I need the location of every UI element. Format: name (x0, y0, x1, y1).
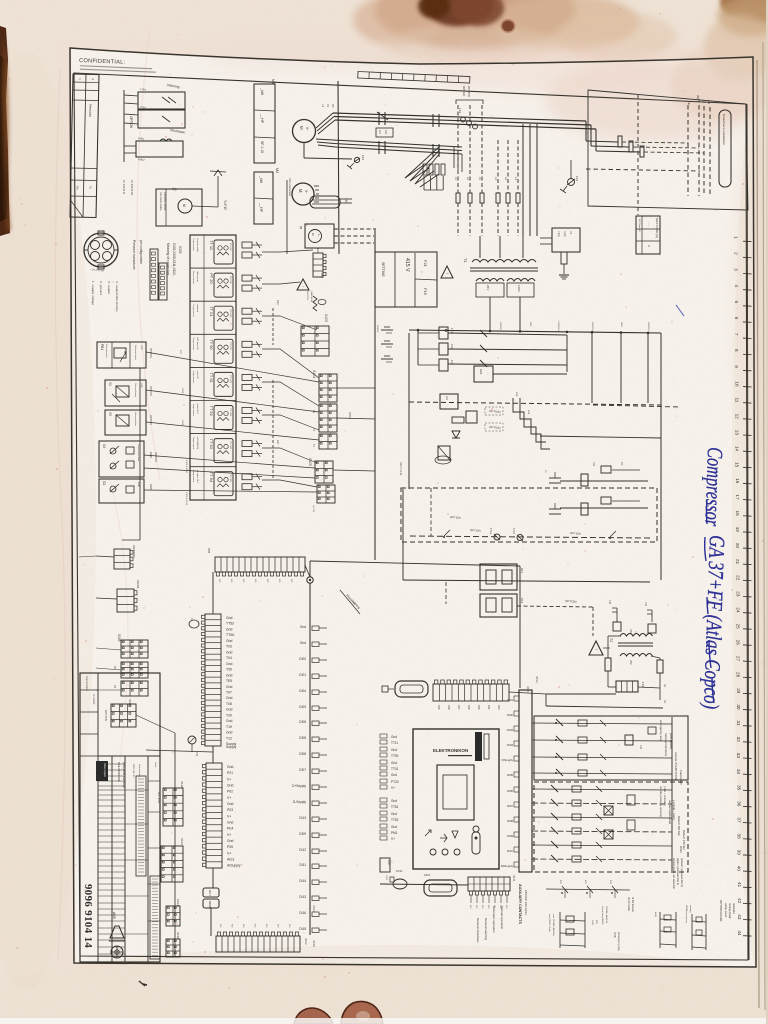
svg-text:(9+0.5): (9+0.5) (312, 505, 314, 512)
star-delta link diagonals (405, 165, 424, 178)
svg-text:Gnd: Gnd (226, 696, 233, 700)
svg-text:P01: P01 (227, 771, 233, 775)
svg-text:DI15: DI15 (299, 927, 306, 931)
svg-text:Dr. month: Dr. month (92, 694, 95, 705)
svg-text:S3/LP 41.13: S3/LP 41.13 (399, 462, 402, 476)
svg-text:40: 40 (737, 866, 742, 872)
svg-text:9X18: 9X18 (424, 873, 431, 877)
contact rows dashed box 2 (534, 782, 688, 872)
aux comb pin stubs (471, 895, 507, 903)
svg-text:1HE1: 1HE1 (489, 528, 492, 535)
svg-text:1~: 1~ (317, 234, 321, 237)
Elektronikon module box (413, 729, 499, 869)
contact rows box 1 (534, 716, 688, 780)
svg-text:DI01: DI01 (507, 698, 513, 702)
svg-text:K11: K11 (520, 568, 524, 573)
right bus of sensor module (374, 228, 376, 560)
svg-text:Dr: Dr (89, 186, 93, 189)
svg-text:OPTION: OPTION (450, 515, 461, 520)
svg-text:LAT dryer ID: LAT dryer ID (196, 337, 199, 350)
svg-text:S102: S102 (591, 920, 593, 926)
solenoid block Y5 (105, 410, 146, 435)
svg-text:SF-1.15: SF-1.15 (260, 141, 264, 153)
three-phase bus lower (333, 140, 462, 147)
bus junction dots (417, 329, 420, 332)
motor M1 circle (293, 120, 316, 143)
svg-text:Delta P DD filter: Delta P DD filter (677, 816, 681, 836)
PE earth terminal (568, 179, 575, 186)
svg-text:Gnd: Gnd (226, 616, 233, 620)
junction node (307, 577, 313, 583)
Atlas Copco logo (96, 761, 108, 781)
svg-text:K01: K01 (487, 705, 491, 710)
svg-text:Gnd: Gnd (226, 628, 233, 632)
svg-text:3: 3 (734, 268, 739, 271)
X30 comb (433, 684, 509, 701)
svg-text:4: 4 (734, 284, 739, 287)
svg-text:NO: NO (290, 579, 292, 583)
svg-text:41: 41 (737, 882, 742, 888)
overload label (376, 128, 393, 137)
lower bundle to links (405, 146, 440, 178)
connector chain vertical wire (174, 733, 176, 957)
svg-text:3PM: 3PM (529, 322, 531, 327)
svg-text:Atlas Copco: Atlas Copco (103, 763, 107, 778)
option dashed feeders group1 (457, 105, 459, 193)
customer installation box (588, 90, 748, 210)
svg-text:6: 6 (734, 317, 739, 320)
stub wires to border (96, 648, 121, 650)
svg-text:X100A: X100A (136, 580, 140, 589)
MAX FUSE table (636, 216, 660, 254)
svg-text:18: 18 (735, 511, 740, 517)
svg-text:39JX36: 39JX36 (376, 325, 378, 333)
svg-text:V+: V+ (227, 777, 231, 781)
svg-text:turning (dual): turning (dual) (728, 903, 732, 918)
svg-text:Gnd: Gnd (226, 719, 233, 723)
svg-text:[5]: [5] (299, 226, 303, 229)
svg-text:T20: T20 (226, 713, 232, 717)
svg-text:OPTION: OPTION (565, 599, 577, 604)
relay K25 (466, 411, 477, 423)
sensor row TT 52 (190, 400, 236, 402)
svg-text:31: 31 (736, 721, 741, 727)
svg-text:Gnd: Gnd (226, 673, 233, 677)
svg-text:DI05: DI05 (299, 736, 306, 740)
supply dashed lines (687, 105, 689, 196)
svg-text:NO: NO (266, 579, 268, 583)
fan motor wires (192, 206, 218, 207)
svg-text:From & Name: From & Name (85, 676, 88, 692)
option contact row 1 (532, 789, 672, 790)
Elektronikon left pin strip upper (391, 735, 399, 790)
svg-text:SETTING: SETTING (381, 262, 385, 277)
dryer option bracket (456, 100, 483, 104)
capacitor sym upper (549, 477, 561, 479)
svg-text:Gnd: Gnd (391, 761, 397, 765)
svg-text:T2: T2 (609, 638, 613, 642)
Elektronikon logo (475, 732, 482, 761)
svg-text:L1(1): L1(1) (557, 231, 560, 237)
svg-text:1X3: 1X3 (575, 176, 579, 181)
transformer T1 primary winding (472, 260, 536, 263)
relay row F02 lower (560, 507, 648, 509)
svg-text:OUT: OUT (208, 890, 212, 896)
svg-text:PT-1000: PT-1000 (229, 475, 231, 483)
svg-text:13: 13 (735, 430, 740, 436)
contact rows right bus (671, 717, 673, 871)
revision table left strip (70, 74, 99, 218)
svg-text:30: 30 (736, 704, 741, 710)
relay K24 box (474, 366, 493, 382)
svg-text:X304: X304 (181, 388, 183, 394)
svg-text:DI13: DI13 (299, 895, 306, 899)
svg-text:DI03: DI03 (507, 728, 513, 732)
svg-text:Y5: Y5 (108, 412, 112, 416)
svg-text:Fault EWD: Fault EWD (679, 770, 683, 785)
svg-text:Solenoid valve: Solenoid valve (134, 383, 136, 398)
svg-text:ELEKTRONIKON: ELEKTRONIKON (433, 748, 468, 753)
sensor feed wires to X104 (262, 250, 313, 252)
digital contact row 3 (532, 757, 672, 758)
Elektronikon buttons (425, 830, 431, 836)
svg-text:33: 33 (736, 753, 741, 759)
ruler column numbers 1-44 (734, 236, 752, 936)
svg-text:PT-1000: PT-1000 (229, 409, 231, 417)
svg-text:V+: V+ (227, 833, 231, 837)
svg-text:PT-1000: PT-1000 (229, 309, 231, 317)
line terminals 1X3 circles (461, 117, 466, 122)
svg-text:Temp sensor: Temp sensor (192, 238, 195, 251)
svg-text:TT 51: TT 51 (209, 372, 214, 383)
svg-text:T04: T04 (226, 656, 232, 660)
EWD module A4 (440, 394, 458, 409)
analog terminal comb 3X35 (205, 614, 221, 746)
svg-text:( line + remote ): ( line + remote ) (663, 786, 667, 806)
svg-text:!: ! (445, 273, 449, 274)
svg-text:NO: NO (254, 924, 256, 928)
svg-text:K12: K12 (520, 598, 524, 604)
sensor row PT 20 (190, 267, 236, 269)
svg-text:Gnd: Gnd (227, 784, 234, 788)
svg-text:415 V: 415 V (404, 258, 410, 272)
sensor row TT 11 (203, 235, 205, 268)
svg-text:240VAC 10A AC11: 240VAC 10A AC11 (524, 890, 528, 915)
svg-text:F21: F21 (450, 328, 454, 333)
svg-text:OPTION: OPTION (570, 531, 581, 536)
svg-text:F01: F01 (592, 462, 595, 467)
svg-text:PT-1000: PT-1000 (229, 342, 231, 350)
pressure switch block S3 (99, 441, 144, 477)
svg-text:NO: NO (481, 905, 483, 909)
blue pen tick (676, 305, 684, 316)
svg-text:Ordernumber: Ordernumber (138, 764, 141, 777)
svg-text:air water OUT: air water OUT (196, 470, 199, 484)
svg-text:DI11: DI11 (300, 863, 307, 867)
warning triangle T1 (441, 266, 453, 278)
svg-text:MOL: MOL (515, 392, 517, 398)
T2 right leg resistor (651, 656, 660, 658)
wire to 3X34 (310, 561, 520, 566)
svg-text:DI02: DI02 (507, 713, 513, 717)
svg-text:To F15: To F15 (223, 200, 227, 210)
svg-text:PE4: PE4 (227, 827, 234, 831)
earth symbol analog (188, 736, 196, 744)
svg-text:KC Class gG: KC Class gG (638, 219, 640, 232)
fan M3 box (305, 224, 334, 248)
svg-text:NO: NO (242, 579, 244, 583)
stain left edge dark strip (0, 26, 10, 236)
svg-text:35: 35 (736, 785, 741, 791)
svg-text:(closed = pressure bat 2): (closed = pressure bat 2) (680, 858, 684, 887)
svg-text:OSD: OSD (140, 345, 142, 350)
svg-text:Gnd: Gnd (391, 773, 397, 777)
svg-text:9822 0937 40: 9822 0937 40 (132, 764, 134, 778)
svg-text:(open = pressure bat 1): (open = pressure bat 1) (676, 858, 680, 885)
wire check row (546, 889, 630, 890)
X112 comb (163, 788, 183, 826)
svg-text:PT20: PT20 (391, 780, 399, 784)
svg-text:38M: 38M (207, 548, 211, 553)
svg-text:Gnd: Gnd (391, 812, 397, 816)
svg-text:NO: NO (265, 924, 267, 928)
fan M3 dashed feeders (334, 228, 374, 230)
T1 secondary drops (489, 297, 491, 330)
svg-text:TE5: TE5 (226, 679, 232, 683)
svg-text:TT90: TT90 (391, 754, 399, 758)
digital contact row 1 (532, 723, 672, 724)
dashed link K12 right (445, 582, 447, 604)
svg-text:T1: T1 (463, 258, 468, 263)
svg-text:remote pressure sensing: remote pressure sensing (659, 786, 663, 817)
svg-text:OPTION: OPTION (149, 415, 153, 425)
D-sub connector X29 (395, 681, 428, 697)
svg-text:3RM: 3RM (620, 322, 622, 327)
svg-text:P05: P05 (227, 845, 233, 849)
bottom lamp row (410, 536, 650, 538)
svg-text:NO: NO (219, 924, 221, 928)
svg-text:DI12: DI12 (299, 848, 306, 852)
fine print strip 2 (136, 776, 146, 876)
X30 link wire (509, 692, 546, 694)
bus above K11 (403, 580, 650, 582)
svg-text:V+: V+ (227, 796, 231, 800)
svg-text:Potentiometer: Potentiometer (105, 344, 108, 358)
fine print strip installation notes (150, 876, 160, 959)
svg-text:PE: PE (687, 101, 691, 105)
svg-text:Gnd: Gnd (227, 821, 234, 825)
svg-text:X113: X113 (180, 838, 184, 845)
svg-text:1: 1 (734, 236, 739, 239)
fuse F12 with earth (561, 252, 567, 264)
svg-text:24V: 24V (629, 660, 633, 665)
title block left strip (97, 673, 99, 962)
svg-text:E37: E37 (276, 440, 280, 445)
svg-text:G2: G2 (102, 481, 106, 485)
svg-text:X111: X111 (128, 699, 132, 706)
svg-text:28: 28 (736, 672, 741, 678)
svg-text:X103: X103 (324, 314, 328, 322)
K01 K02 marks (625, 735, 633, 745)
svg-text:HPWA emergency: HPWA emergency (685, 905, 688, 924)
svg-text:TT11: TT11 (391, 741, 398, 745)
svg-text:F10: F10 (608, 600, 611, 605)
svg-text:A131: A131 (654, 912, 657, 918)
svg-text:X304: X304 (181, 420, 183, 426)
svg-text:D+Supply: D+Supply (292, 784, 306, 788)
3X34 comb strip (519, 690, 532, 872)
svg-text:NO: NO (277, 924, 279, 928)
svg-text:Fan motor outline: Fan motor outline (159, 192, 162, 211)
option contact row 6 (532, 859, 672, 860)
svg-text:__HP: __HP (260, 113, 264, 124)
top horizontal comb 3X36 (215, 557, 305, 572)
svg-text:15: 15 (735, 462, 740, 468)
svg-text:V+: V+ (227, 851, 231, 855)
svg-text:OPTION: OPTION (157, 792, 161, 803)
option contact row 4 (532, 831, 672, 832)
svg-text:OPTION: OPTION (470, 528, 481, 533)
left bus wire (139, 368, 141, 540)
svg-text:3~: 3~ (305, 127, 309, 131)
relay lamp box K22 Shutdown (138, 110, 185, 128)
analog comb 2 3X37 (206, 763, 222, 868)
svg-text:D-Supply: D-Supply (293, 800, 307, 804)
svg-text:Manual operation: Manual operation (500, 906, 504, 930)
svg-text:Gnd: Gnd (391, 735, 397, 739)
svg-text:Pressure transducer: Pressure transducer (132, 240, 136, 271)
svg-text:20: 20 (735, 543, 740, 549)
svg-text:Ground ring 3MMC: Ground ring 3MMC (601, 906, 604, 925)
svg-text:1X3: 1X3 (361, 155, 365, 160)
sensor row TT 90 (190, 333, 236, 335)
svg-text:M1: M1 (271, 79, 275, 84)
svg-text:emergency stop: emergency stop (659, 720, 663, 742)
svg-text:X102: X102 (385, 875, 387, 881)
option contact row 2 (532, 803, 672, 804)
svg-text:Supply: Supply (226, 745, 237, 749)
control bus upper (409, 330, 661, 333)
title block frame (80, 673, 160, 962)
svg-text:3~: 3~ (304, 190, 308, 194)
inner drawing border (74, 73, 748, 960)
svg-text:PM1: PM1 (391, 831, 398, 835)
svg-text:29: 29 (736, 688, 741, 694)
svg-text:(Emergency stop): (Emergency stop) (617, 932, 620, 951)
svg-text:element outlet: element outlet (196, 238, 199, 252)
PE terminal symbol (354, 157, 359, 162)
title table columns (111, 756, 113, 962)
svg-text:3X33: 3X33 (312, 905, 316, 912)
svg-text:19: 19 (735, 527, 740, 533)
svg-text:Gnd: Gnd (227, 802, 234, 806)
svg-text:34: 34 (736, 769, 741, 775)
svg-text:NO: NO (288, 924, 290, 928)
svg-text:Te 51132 B: Te 51132 B (122, 180, 126, 194)
svg-text:DI09: DI09 (507, 834, 513, 838)
svg-text:Automatic operation: Automatic operation (492, 906, 496, 933)
DI column taps (292, 625, 306, 931)
svg-text:NO: NO (231, 924, 233, 928)
setting box F21 F15 (375, 252, 437, 307)
svg-text:OSCI: OSCI (679, 846, 683, 853)
svg-text:EW 220V: EW 220V (306, 291, 308, 301)
svg-text:9: 9 (734, 365, 739, 368)
svg-text:21: 21 (735, 559, 740, 565)
inner dashed vertical (430, 488, 432, 536)
oval connector (393, 879, 407, 889)
svg-text:39: 39 (737, 850, 742, 856)
svg-text:Star connection:: Star connection: (288, 178, 292, 197)
top tick strip (358, 72, 470, 84)
svg-text:MCR: MCR (387, 860, 389, 865)
svg-text:K24: K24 (479, 369, 483, 375)
svg-text:Temp sensor: Temp sensor (192, 337, 195, 350)
svg-text:OPTION: OPTION (104, 710, 108, 721)
overload relay F21 marks (378, 141, 380, 147)
link down to T2 area (592, 607, 594, 636)
svg-text:2: 2 (734, 252, 739, 255)
svg-text:1 : supply voltage: 1 : supply voltage (91, 281, 95, 305)
svg-text:F11: F11 (644, 602, 647, 607)
diode V1 (452, 431, 460, 438)
potentiometer block PB1 (97, 342, 146, 368)
svg-text:EWD: EWD (149, 484, 153, 490)
svg-text:4 : sealed with dummy: 4 : sealed with dummy (115, 281, 119, 312)
svg-text:K08: K08 (447, 705, 451, 710)
stain top-right corner (720, 0, 768, 22)
solid feeders to T1 (522, 124, 524, 236)
svg-text:X108 M10: X108 M10 (132, 545, 136, 558)
svg-text:T12: T12 (226, 736, 232, 740)
connector X35 (616, 681, 638, 692)
handwritten note Compressor GA 37+FF Atlas Copco (699, 447, 730, 710)
bottom ladder cluster 2 (659, 912, 661, 948)
pen slash bottom left (139, 981, 147, 986)
svg-text:PT-1000: PT-1000 (229, 243, 231, 251)
sensor row TT 51 (190, 366, 236, 368)
svg-text:3X12: 3X12 (304, 938, 308, 945)
svg-text:Gnd: Gnd (227, 839, 234, 843)
svg-text:Gnd: Gnd (226, 708, 233, 712)
contactor aux K11 (480, 564, 517, 590)
sensor dashed collector lower (272, 380, 274, 478)
svg-text:DI02: DI02 (299, 657, 306, 661)
svg-text:TT 54: TT 54 (209, 472, 214, 483)
D-sub connector 9X18 (424, 880, 457, 896)
svg-text:1X8: 1X8 (320, 273, 324, 278)
svg-text:OPTION ES100: OPTION ES100 (719, 900, 723, 922)
svg-text:Gnd: Gnd (227, 765, 234, 769)
svg-text:TT01: TT01 (391, 767, 399, 771)
svg-text:motor protections: motor protections (664, 733, 668, 757)
connector X111 (111, 704, 136, 727)
svg-text:V+: V+ (391, 786, 395, 790)
svg-text:- - -: - - - (647, 222, 650, 226)
svg-text:Gnd: Gnd (391, 825, 397, 829)
svg-text:Press sensor: Press sensor (192, 271, 195, 284)
svg-text:NO: NO (242, 924, 244, 928)
svg-text:SEE DRAWING: SEE DRAWING (117, 762, 121, 782)
svg-text:DI04: DI04 (507, 743, 513, 747)
control bus lower dashed (409, 402, 661, 405)
svg-text:ambient: ambient (196, 304, 199, 312)
svg-text:X104: X104 (312, 370, 316, 378)
svg-text:DI13: DI13 (299, 816, 306, 820)
svg-text:OPTION: OPTION (154, 452, 158, 462)
svg-text:(K05): (K05) (613, 932, 616, 938)
staircase wires (513, 398, 546, 442)
